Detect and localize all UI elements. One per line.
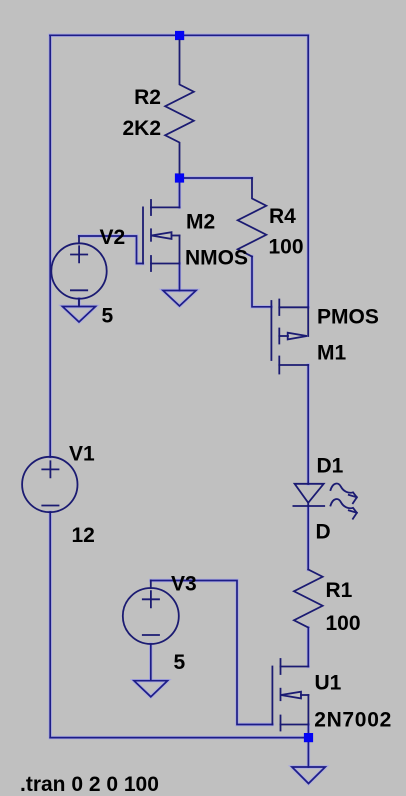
transistor U1 (NMOS 2N7002)	[272, 659, 308, 731]
wire V2 plus to M2 gate	[79, 236, 143, 264]
svg-text:100: 100	[269, 236, 304, 259]
wire V2 minus to ground	[78, 299, 80, 307]
wire V3 minus to ground	[150, 644, 152, 681]
svg-text:5: 5	[174, 651, 186, 674]
ground under V2	[63, 307, 96, 323]
wire bottom rail	[50, 737, 305, 739]
resistor R4	[238, 178, 267, 257]
resistor R1	[294, 570, 323, 628]
svg-text:5: 5	[102, 304, 114, 327]
wire M2 source to ground	[179, 264, 181, 291]
voltage source V2	[51, 236, 106, 306]
diode D1 (LED)	[293, 484, 324, 506]
D1 light squiggle arrow lower	[331, 499, 357, 519]
wire M1 drain to D1 anode	[307, 365, 309, 484]
wire node N001 to R4 top	[180, 177, 253, 179]
junction node N001 (R2/R4/M2 drain)	[175, 173, 184, 182]
svg-text:R4: R4	[269, 205, 296, 228]
ground under M2	[163, 291, 196, 307]
svg-text:100: 100	[326, 612, 361, 635]
svg-text:R2: R2	[134, 86, 161, 109]
wire bottom node to ground	[307, 740, 309, 767]
ground under V3	[134, 681, 168, 697]
svg-text:PMOS: PMOS	[317, 305, 379, 328]
wire left rail lower (V1 minus pin to bottom rail)	[49, 512, 51, 738]
svg-text:M2: M2	[186, 211, 215, 234]
svg-text:D1: D1	[317, 455, 344, 478]
wire left rail upper (top corner to V1 plus pin)	[49, 35, 51, 457]
svg-text:NMOS: NMOS	[185, 246, 248, 269]
svg-text:2N7002: 2N7002	[314, 709, 392, 732]
svg-text:V3: V3	[171, 572, 197, 595]
wire top rail	[50, 34, 308, 36]
wire M2 drain riser	[179, 178, 181, 207]
wire U1 source to bottom node	[307, 725, 309, 738]
svg-text:V2: V2	[100, 226, 126, 249]
wire	[50, 35, 325, 783]
svg-text:D: D	[316, 521, 331, 544]
wire right rail (top corner to M1 source pin)	[307, 35, 309, 307]
transistor M1 (PMOS)	[271, 300, 308, 374]
wire V3 plus to U1 gate	[151, 581, 273, 725]
junction node bottom (U1 source / rail / ground)	[304, 733, 313, 742]
D1 light squiggle arrow upper	[331, 484, 357, 504]
resistor R2	[165, 40, 194, 174]
svg-text:R1: R1	[326, 579, 353, 602]
svg-text:M1: M1	[317, 342, 346, 365]
transistor M2 (NMOS)	[143, 200, 180, 271]
svg-text:2K2: 2K2	[122, 117, 161, 140]
voltage source V3	[123, 581, 179, 645]
ground bottom right	[292, 767, 325, 784]
svg-text:.tran 0 2 0 100: .tran 0 2 0 100	[20, 773, 159, 796]
svg-text:12: 12	[72, 524, 95, 547]
junction node top rail / R2	[175, 31, 184, 40]
wire D1 cathode to R1 top	[307, 506, 309, 570]
svg-text:U1: U1	[315, 671, 342, 694]
voltage source V1	[22, 457, 77, 512]
wire R1 bottom to U1 drain	[307, 628, 309, 667]
svg-text:V1: V1	[69, 443, 95, 466]
wire R4 bottom to M1 gate	[252, 257, 271, 307]
